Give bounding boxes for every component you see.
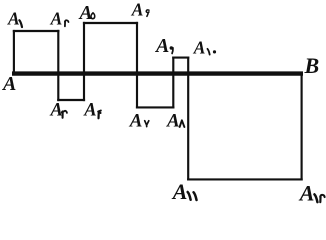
svg-text:B: B bbox=[304, 53, 320, 78]
node A3 label bbox=[50, 100, 67, 120]
svg-text:A: A bbox=[154, 35, 169, 57]
svg-text:A: A bbox=[166, 110, 180, 131]
svg-text:A: A bbox=[131, 0, 144, 20]
node A11 label bbox=[171, 179, 197, 204]
wire A2-A3 (falling segment) bbox=[57, 31, 59, 100]
svg-text:A: A bbox=[129, 111, 143, 132]
node A6 label bbox=[131, 0, 149, 20]
node A8 label bbox=[166, 110, 184, 131]
node A5 label bbox=[78, 3, 95, 24]
wire A11-A12 (bottom segment) bbox=[188, 178, 301, 180]
wire A1-A2 (top segment) bbox=[14, 30, 58, 32]
wire A4-A5 (rising segment) bbox=[83, 23, 85, 100]
wire A7-A8 (bottom segment) bbox=[137, 106, 173, 108]
wire A10-A11 (falling segment) bbox=[187, 58, 189, 180]
wire A6-A7 (falling segment) bbox=[136, 23, 138, 107]
wire A5-A6 (top segment) bbox=[84, 22, 137, 24]
wire A9-A10 (top segment) bbox=[173, 57, 188, 59]
node A4 label bbox=[83, 101, 101, 121]
node A2 label bbox=[50, 9, 69, 29]
svg-text:A: A bbox=[83, 101, 96, 121]
baseline A-B (thick horizontal segment) bbox=[12, 71, 303, 75]
svg-text:A: A bbox=[298, 181, 315, 206]
svg-text:A: A bbox=[1, 73, 16, 95]
wire A3-A4 (bottom segment) bbox=[58, 99, 84, 101]
node A9 label bbox=[154, 35, 173, 57]
svg-text:A: A bbox=[50, 100, 63, 120]
wire A8-A9 (rising segment) bbox=[172, 58, 174, 108]
svg-text:A: A bbox=[7, 9, 20, 29]
node A1 label bbox=[7, 9, 22, 29]
node A7 label bbox=[129, 111, 149, 132]
svg-text:A: A bbox=[193, 37, 206, 57]
node A12 label bbox=[298, 181, 325, 206]
svg-text:A: A bbox=[78, 3, 93, 24]
svg-text:A: A bbox=[50, 9, 63, 29]
wire A12-B (rising segment) bbox=[301, 74, 303, 180]
svg-text:A: A bbox=[171, 179, 188, 204]
node A10 label bbox=[193, 37, 216, 57]
wire A-A1 (rising segment) bbox=[13, 31, 15, 74]
